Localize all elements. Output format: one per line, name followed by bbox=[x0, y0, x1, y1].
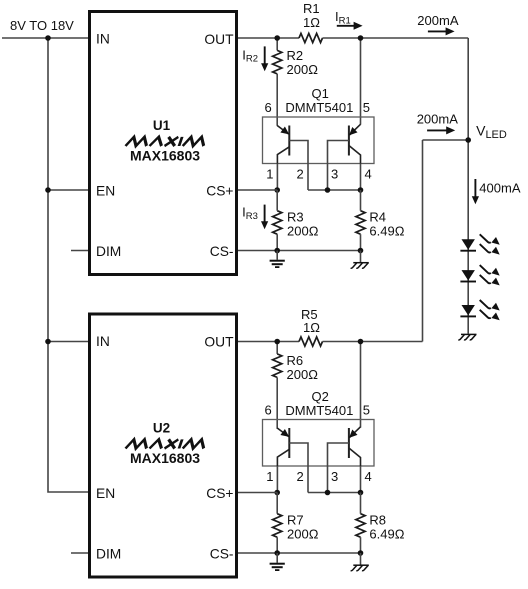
svg-text:DMMT5401: DMMT5401 bbox=[285, 100, 353, 115]
svg-text:IN: IN bbox=[96, 334, 110, 349]
svg-text:8V TO 18V: 8V TO 18V bbox=[10, 18, 74, 33]
svg-text:DIM: DIM bbox=[96, 244, 121, 259]
svg-text:CS-: CS- bbox=[210, 546, 234, 561]
svg-text:OUT: OUT bbox=[204, 32, 234, 47]
svg-text:200Ω: 200Ω bbox=[287, 62, 319, 77]
svg-text:6.49Ω: 6.49Ω bbox=[369, 224, 404, 239]
svg-text:R7: R7 bbox=[287, 513, 304, 528]
svg-text:4: 4 bbox=[365, 167, 372, 182]
svg-text:DIM: DIM bbox=[96, 546, 121, 561]
svg-text:U1: U1 bbox=[153, 118, 171, 133]
svg-text:CS+: CS+ bbox=[206, 183, 233, 198]
svg-text:EN: EN bbox=[96, 486, 115, 501]
svg-text:MAX16803: MAX16803 bbox=[130, 450, 200, 466]
svg-text:CS-: CS- bbox=[210, 244, 234, 259]
svg-text:1: 1 bbox=[266, 167, 273, 182]
svg-text:400mA: 400mA bbox=[479, 181, 521, 196]
svg-text:R6: R6 bbox=[287, 353, 304, 368]
svg-text:CS+: CS+ bbox=[206, 486, 233, 501]
svg-text:5: 5 bbox=[363, 100, 370, 115]
svg-text:EN: EN bbox=[96, 183, 115, 198]
svg-text:Q1: Q1 bbox=[312, 86, 329, 101]
svg-text:3: 3 bbox=[331, 469, 338, 484]
svg-text:Q2: Q2 bbox=[312, 389, 329, 404]
svg-text:MAX16803: MAX16803 bbox=[130, 148, 200, 164]
svg-text:6: 6 bbox=[265, 403, 272, 418]
svg-text:1: 1 bbox=[266, 469, 273, 484]
svg-text:5: 5 bbox=[363, 403, 370, 418]
svg-text:200Ω: 200Ω bbox=[287, 367, 319, 382]
svg-text:OUT: OUT bbox=[204, 335, 234, 350]
svg-text:U2: U2 bbox=[153, 421, 170, 436]
svg-text:2: 2 bbox=[297, 167, 304, 182]
svg-text:DMMT5401: DMMT5401 bbox=[285, 403, 353, 418]
svg-text:R2: R2 bbox=[287, 48, 304, 63]
svg-text:IN: IN bbox=[96, 32, 110, 47]
svg-text:R4: R4 bbox=[369, 210, 386, 225]
svg-text:R3: R3 bbox=[287, 210, 304, 225]
svg-text:R1: R1 bbox=[303, 1, 320, 16]
svg-text:6: 6 bbox=[265, 100, 272, 115]
svg-text:4: 4 bbox=[365, 469, 372, 484]
svg-text:200mA: 200mA bbox=[417, 13, 459, 28]
svg-text:200mA: 200mA bbox=[417, 112, 459, 127]
svg-text:200Ω: 200Ω bbox=[287, 527, 319, 542]
svg-text:200Ω: 200Ω bbox=[287, 224, 319, 239]
svg-text:1Ω: 1Ω bbox=[303, 15, 320, 30]
svg-text:6.49Ω: 6.49Ω bbox=[369, 527, 404, 542]
svg-text:2: 2 bbox=[297, 469, 304, 484]
svg-text:1Ω: 1Ω bbox=[303, 320, 320, 335]
svg-text:R8: R8 bbox=[369, 513, 386, 528]
svg-text:3: 3 bbox=[331, 167, 338, 182]
